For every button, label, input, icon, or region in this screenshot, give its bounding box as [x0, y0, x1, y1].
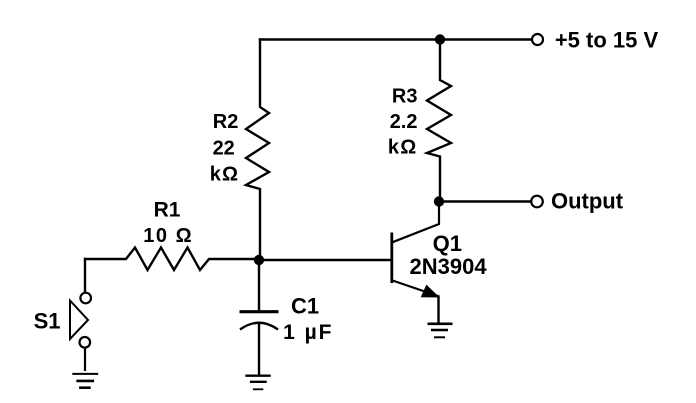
node junction A	[254, 255, 264, 265]
wire emitter drop	[437, 297, 439, 323]
svg-text:22: 22	[213, 138, 235, 160]
switch S1	[70, 293, 91, 371]
ground under Q1	[428, 324, 453, 338]
resistor R1	[85, 248, 259, 271]
svg-text:10 Ω: 10 Ω	[143, 225, 193, 247]
transistor Q1	[392, 202, 439, 297]
svg-text:2.2: 2.2	[390, 111, 418, 133]
emitter arrow	[422, 286, 439, 298]
node top rail junction	[435, 34, 445, 44]
capacitor C1 lead bottom	[258, 324, 260, 375]
wire switch drop	[84, 259, 86, 293]
terminal Output	[531, 196, 543, 208]
resistor R2	[246, 40, 269, 261]
terminal +5 to 15 V	[532, 34, 543, 45]
capacitor C1 lead top	[258, 260, 260, 311]
svg-text:R1: R1	[154, 199, 181, 222]
node collector junction	[434, 196, 444, 206]
svg-text:R2: R2	[213, 111, 239, 133]
wire base	[259, 259, 390, 261]
svg-text:kΩ: kΩ	[388, 137, 418, 159]
svg-text:2N3904: 2N3904	[410, 254, 488, 279]
wire top rail	[260, 38, 532, 40]
ground under C1	[245, 376, 270, 390]
svg-text:kΩ: kΩ	[210, 163, 240, 185]
capacitor C1	[240, 312, 279, 330]
resistor R3	[427, 40, 451, 202]
svg-text:Q1: Q1	[433, 231, 462, 256]
ground under S1	[72, 374, 98, 388]
svg-text:Output: Output	[551, 188, 624, 213]
svg-text:C1: C1	[291, 294, 319, 319]
svg-text:R3: R3	[392, 85, 418, 107]
svg-text:1 µF: 1 µF	[283, 321, 333, 344]
svg-text:S1: S1	[34, 309, 61, 334]
svg-text:+5 to 15 V: +5 to 15 V	[555, 28, 659, 53]
wire output	[439, 200, 531, 202]
